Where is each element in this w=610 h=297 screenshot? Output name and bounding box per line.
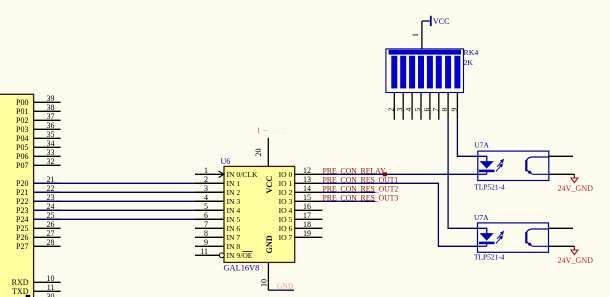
wire net PRE_CON_RES_OUT2 stub xyxy=(322,191,375,193)
svg-text:IN 5: IN 5 xyxy=(227,215,241,224)
svg-text:TLP521-4: TLP521-4 xyxy=(474,182,505,191)
pin 18 (IO 6) of U6 xyxy=(279,220,323,233)
collector output wire xyxy=(549,155,574,157)
svg-text:5: 5 xyxy=(413,108,422,112)
svg-text:P27: P27 xyxy=(16,242,28,251)
svg-text:28: 28 xyxy=(47,238,55,247)
pin 11 (IN 9/OE) of U6 xyxy=(195,247,253,260)
svg-text:38: 38 xyxy=(47,103,55,112)
pin P03 (36) of MCU xyxy=(16,121,61,134)
svg-text:IO 3: IO 3 xyxy=(279,197,293,206)
value GAL16V8 xyxy=(224,264,260,273)
pin 5 of RK4 xyxy=(413,93,422,120)
LED light arrows xyxy=(496,232,504,244)
pin P22 (23) of MCU xyxy=(16,193,61,206)
svg-text:13: 13 xyxy=(303,175,311,184)
svg-text:IO 0: IO 0 xyxy=(279,170,293,179)
svg-text:3: 3 xyxy=(395,108,404,112)
svg-text:1: 1 xyxy=(411,33,420,37)
svg-text:39: 39 xyxy=(47,94,55,103)
pin TXD (11) of MCU xyxy=(12,283,61,296)
net label PRE_CON_RELAY xyxy=(323,167,386,176)
emitter output wire to 24V_GND xyxy=(549,173,575,175)
pin P21 (22) of MCU xyxy=(16,184,61,197)
svg-text:P05: P05 xyxy=(16,143,28,152)
pin 14 (IO 2) of U6 xyxy=(279,184,323,197)
pin 20 stub wire (VCC, top of U6) xyxy=(254,138,268,167)
svg-text:P20: P20 xyxy=(16,179,28,188)
svg-text:17: 17 xyxy=(303,211,311,220)
svg-text:P21: P21 xyxy=(16,188,28,197)
resistor element 5 of RK4 xyxy=(427,56,433,89)
pin P05 (34) of MCU xyxy=(16,139,61,152)
svg-text:2: 2 xyxy=(386,108,395,112)
svg-text:5: 5 xyxy=(204,202,208,211)
svg-text:14: 14 xyxy=(303,184,311,193)
collector output wire xyxy=(549,227,574,229)
svg-text:3: 3 xyxy=(204,184,208,193)
svg-text:P06: P06 xyxy=(16,152,28,161)
svg-text:32: 32 xyxy=(47,157,55,166)
pin 6 (IN 5) of U6 xyxy=(195,211,240,224)
svg-text:IO 1: IO 1 xyxy=(279,179,293,188)
svg-text:IO 6: IO 6 xyxy=(279,224,293,233)
pin P04 (35) of MCU xyxy=(16,130,61,143)
svg-text:P04: P04 xyxy=(16,134,28,143)
svg-text:TLP521-4: TLP521-4 xyxy=(474,252,505,261)
pin 6 of RK4 xyxy=(422,93,431,120)
VCC power port xyxy=(422,16,450,26)
resistor element 3 of RK4 xyxy=(409,56,415,89)
pin 3 of RK4 xyxy=(395,93,404,120)
pin P23 (24) of MCU xyxy=(16,202,61,215)
svg-text:6: 6 xyxy=(204,211,208,220)
svg-text:GAL16V8: GAL16V8 xyxy=(224,264,260,273)
svg-text:IN 4: IN 4 xyxy=(227,206,241,215)
svg-text:IN 1: IN 1 xyxy=(227,179,241,188)
wire RK4 pin 8 down to opto 2 anode xyxy=(448,120,477,229)
pin P00 (39) of MCU xyxy=(16,94,61,107)
net label PRE_CON_RES_OUT1 xyxy=(323,176,399,185)
svg-text:IO 4: IO 4 xyxy=(279,206,293,215)
svg-text:36: 36 xyxy=(47,121,55,130)
designator RK4 xyxy=(464,48,479,57)
svg-text:9: 9 xyxy=(204,238,208,247)
resistor element 8 of RK4 xyxy=(454,56,460,89)
svg-text:IN 6: IN 6 xyxy=(227,224,241,233)
24V_GND power port xyxy=(558,174,594,193)
value 2K xyxy=(464,58,474,67)
svg-text:IN 9/OE: IN 9/OE xyxy=(227,251,253,260)
svg-text:VCC: VCC xyxy=(265,176,274,194)
24V_GND power port xyxy=(558,246,594,265)
svg-text:IO 2: IO 2 xyxy=(279,188,293,197)
pin 4 (IN 3) of U6 xyxy=(195,193,240,206)
pin 1 (IN 0/CLK) of U6 xyxy=(195,166,258,179)
svg-text:P02: P02 xyxy=(16,116,28,125)
value TLP521-4 xyxy=(474,182,505,191)
svg-text:2: 2 xyxy=(204,175,208,184)
svg-text:9: 9 xyxy=(449,108,458,112)
svg-text:15: 15 xyxy=(303,193,311,202)
phototransistor of optocoupler xyxy=(526,157,548,174)
svg-text:U6: U6 xyxy=(221,157,231,166)
svg-text:16: 16 xyxy=(303,202,311,211)
optocoupler U7A body xyxy=(478,151,549,180)
wire P21 to GAL IN2 xyxy=(34,191,224,193)
net label PRE_CON_RES_OUT3 xyxy=(323,194,399,203)
svg-text:37: 37 xyxy=(47,112,55,121)
pin P06 (33) of MCU xyxy=(16,148,61,161)
pin 2 (IN 1) of U6 xyxy=(195,175,240,188)
svg-text:P25: P25 xyxy=(16,224,28,233)
svg-text:P03: P03 xyxy=(16,125,28,134)
wire net PRE_CON_RES_OUT1 (IO1, runs right then down to opto 2) xyxy=(322,183,477,246)
pin 8 of RK4 (wire to optocoupler) xyxy=(440,93,449,120)
pin 16 (IO 4) of U6 xyxy=(279,202,323,215)
pin 13 (IO 1) of U6 xyxy=(279,175,323,188)
pin 15 (IO 3) of U6 xyxy=(279,193,323,206)
pin 9 (IN 8) of U6 xyxy=(195,238,240,251)
svg-text:27: 27 xyxy=(47,229,55,238)
wire net PRE_CON_RELAY (IO0 to opto U7A cathode) xyxy=(322,173,477,175)
svg-text:34: 34 xyxy=(47,139,55,148)
pin 10 GND of U6 (rotated name) xyxy=(265,235,274,253)
pin 7 (IN 6) of U6 xyxy=(195,220,240,233)
pin RXD (10) of MCU xyxy=(12,274,61,287)
pin P24 (25) of MCU xyxy=(16,211,61,224)
pin P20 (21) of MCU xyxy=(16,175,61,188)
svg-text:11: 11 xyxy=(200,247,208,256)
pin 2 of RK4 xyxy=(386,93,395,120)
pin 3 (IN 2) of U6 xyxy=(195,184,240,197)
pin 9 of RK4 (wire to optocoupler) xyxy=(449,93,458,120)
svg-text:24V_GND: 24V_GND xyxy=(558,184,594,193)
svg-text:VCC: VCC xyxy=(433,17,449,26)
LED light arrows xyxy=(496,160,504,172)
svg-text:IO 5: IO 5 xyxy=(279,215,293,224)
svg-text:11: 11 xyxy=(47,283,55,292)
svg-text:2K: 2K xyxy=(464,58,474,67)
phototransistor of optocoupler xyxy=(526,229,548,246)
svg-text:GND: GND xyxy=(277,282,294,291)
pin 30 of MCU (cropped at bottom) xyxy=(26,292,55,297)
pin P27 (28) of MCU xyxy=(16,238,61,251)
resistor element 1 of RK4 xyxy=(391,56,397,89)
svg-text:20: 20 xyxy=(254,149,263,157)
svg-text:P24: P24 xyxy=(16,215,28,224)
wire P22 to GAL IN3 xyxy=(34,200,224,202)
svg-text:U7A: U7A xyxy=(474,141,489,150)
resistor network RK4 body xyxy=(386,49,464,93)
svg-text:IO 7: IO 7 xyxy=(279,233,293,242)
svg-text:8: 8 xyxy=(440,108,449,112)
svg-text:PRE_CON_RES_OUT2: PRE_CON_RES_OUT2 xyxy=(323,185,399,194)
pin 12 (IO 0) of U6 xyxy=(279,166,323,179)
pin 17 (IO 5) of U6 xyxy=(279,211,323,224)
pin P25 (26) of MCU xyxy=(16,220,61,233)
svg-text:IN 3: IN 3 xyxy=(227,197,241,206)
designator U7A xyxy=(474,141,489,150)
svg-text:TXD: TXD xyxy=(12,287,29,296)
pin P26 (27) of MCU xyxy=(16,229,61,242)
svg-text:7: 7 xyxy=(431,108,440,112)
svg-text:10: 10 xyxy=(47,274,55,283)
pin P02 (37) of MCU xyxy=(16,112,61,125)
GAL16V8 U6 body xyxy=(224,166,295,262)
GND power port below U6 xyxy=(268,282,294,291)
svg-text:35: 35 xyxy=(47,130,55,139)
svg-text:RK4: RK4 xyxy=(464,48,479,57)
svg-text:P01: P01 xyxy=(16,107,28,116)
RK4 common bus bar xyxy=(389,50,461,55)
svg-text:PRE_CON_RES_OUT3: PRE_CON_RES_OUT3 xyxy=(323,194,399,203)
faint VCC power port above U6 xyxy=(259,127,288,136)
LED of optocoupler (anode/cathode) xyxy=(478,228,495,246)
LED of optocoupler (anode/cathode) xyxy=(478,156,495,174)
svg-text:P07: P07 xyxy=(16,161,28,170)
wire P20 to GAL IN1 xyxy=(34,182,224,184)
svg-text:U7A: U7A xyxy=(474,213,489,222)
svg-text:26: 26 xyxy=(47,220,55,229)
svg-text:IN 2: IN 2 xyxy=(227,188,241,197)
pin 7 of RK4 xyxy=(431,93,440,120)
svg-text:1: 1 xyxy=(204,166,208,175)
svg-text:33: 33 xyxy=(47,148,55,157)
svg-text:18: 18 xyxy=(303,220,311,229)
wire P24 to GAL IN5 xyxy=(34,218,224,220)
pin 4 of RK4 xyxy=(404,93,413,120)
svg-text:6: 6 xyxy=(422,108,431,112)
pin 8 (IN 7) of U6 xyxy=(195,229,240,242)
svg-text:PRE_CON_RELAY: PRE_CON_RELAY xyxy=(323,167,386,176)
svg-text:IN 8: IN 8 xyxy=(227,242,241,251)
value TLP521-4 xyxy=(474,252,505,261)
resistor element 7 of RK4 xyxy=(445,56,451,89)
svg-text:19: 19 xyxy=(303,229,311,238)
svg-text:P00: P00 xyxy=(16,98,28,107)
svg-text:PRE_CON_RES_OUT1: PRE_CON_RES_OUT1 xyxy=(323,176,399,185)
svg-text:7: 7 xyxy=(204,220,208,229)
svg-text:P22: P22 xyxy=(16,197,28,206)
pin 10 stub wire (GND, bottom of U6) xyxy=(259,262,268,290)
junction on PRE_CON_RELAY xyxy=(383,172,387,176)
optocoupler U7A body xyxy=(478,223,549,252)
svg-text:8: 8 xyxy=(204,229,208,238)
svg-text:IN 0/CLK: IN 0/CLK xyxy=(227,170,259,179)
pin 1 wire of RK4 to VCC xyxy=(411,21,422,49)
pin 20 VCC of U6 (rotated name) xyxy=(265,176,274,194)
wire net PRE_CON_RES_OUT3 stub xyxy=(322,200,375,202)
svg-text:30: 30 xyxy=(47,292,55,297)
pin 19 (IO 7) of U6 xyxy=(279,229,323,242)
resistor element 6 of RK4 xyxy=(436,56,442,89)
pin P07 (32) of MCU xyxy=(16,157,61,170)
svg-text:RXD: RXD xyxy=(12,278,29,287)
pin P01 (38) of MCU xyxy=(16,103,61,116)
designator U7A xyxy=(474,213,489,222)
svg-text:VCC: VCC xyxy=(272,127,287,136)
svg-text:P23: P23 xyxy=(16,206,28,215)
svg-text:4: 4 xyxy=(204,193,208,202)
svg-text:4: 4 xyxy=(404,108,413,112)
svg-text:P26: P26 xyxy=(16,233,28,242)
resistor element 4 of RK4 xyxy=(418,56,424,89)
svg-text:10: 10 xyxy=(259,279,268,287)
resistor element 2 of RK4 xyxy=(400,56,406,89)
pin 5 (IN 4) of U6 xyxy=(195,202,240,215)
svg-text:12: 12 xyxy=(303,166,311,175)
svg-text:24V_GND: 24V_GND xyxy=(558,256,594,265)
svg-text:IN 7: IN 7 xyxy=(227,233,241,242)
wire P23 to GAL IN4 xyxy=(34,209,224,211)
designator U6 xyxy=(221,157,231,166)
wire RK4 pin 9 down to opto 1 anode xyxy=(457,120,477,157)
svg-text:GND: GND xyxy=(265,235,274,253)
emitter output wire to 24V_GND xyxy=(549,245,575,247)
MCU part (left, cropped) xyxy=(0,94,34,297)
net label PRE_CON_RES_OUT2 xyxy=(323,185,399,194)
